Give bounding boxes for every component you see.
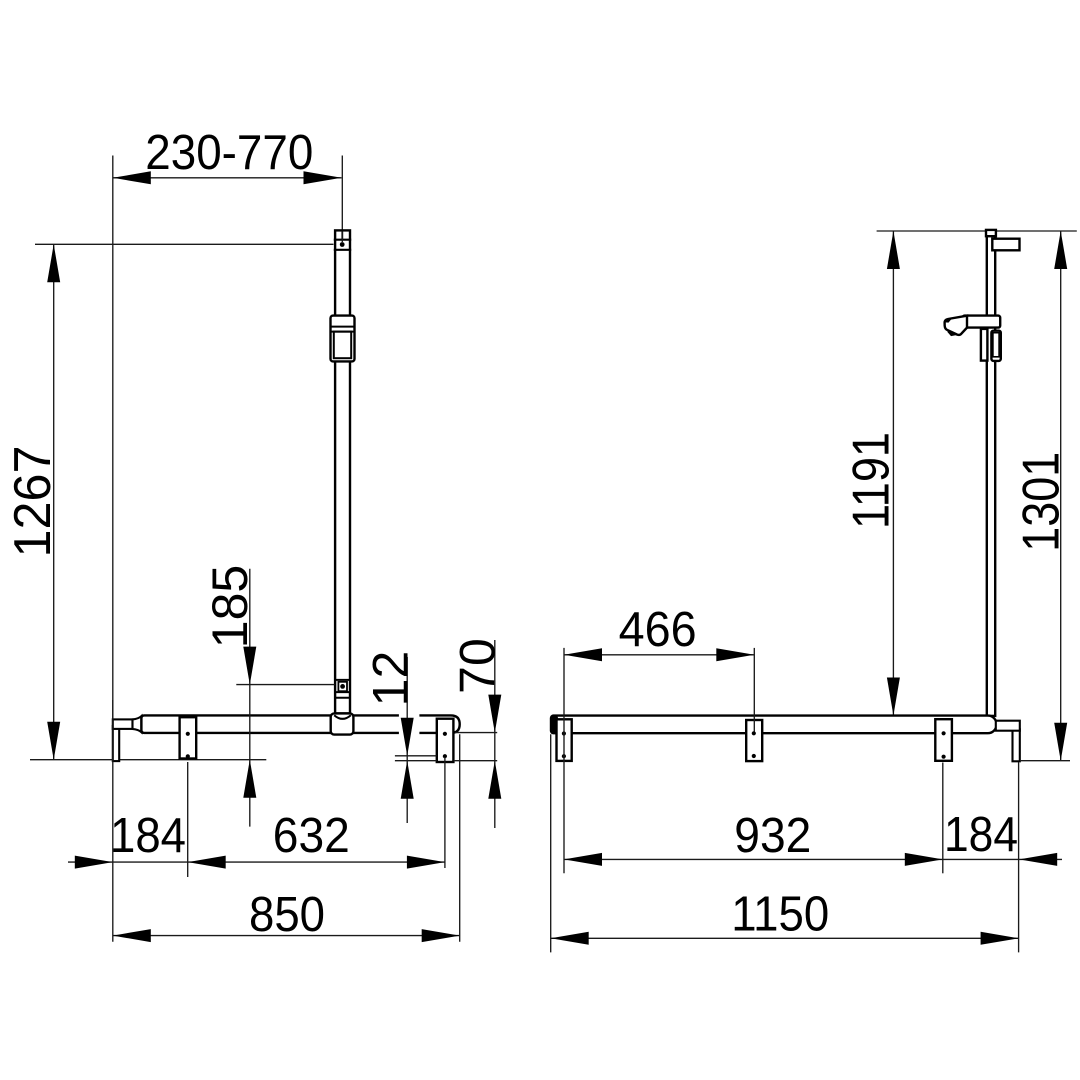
dimension 185 lower arrow (up) — [243, 760, 256, 798]
tee connector — [331, 713, 354, 734]
head accent bottom — [947, 330, 957, 336]
dimension 230-770 right arrow — [304, 171, 342, 184]
svg-text:850: 850 — [249, 888, 325, 942]
clamp inner — [993, 333, 999, 357]
dimension 932 right arrow — [905, 853, 943, 866]
extension stub into cap — [341, 232, 343, 243]
slider plate — [981, 329, 988, 361]
dimension 632 right arrow — [407, 856, 445, 869]
rail lower pivot box lines — [334, 679, 351, 681]
dimension 850 line — [113, 935, 460, 937]
dimension 1267 top arrow — [47, 244, 60, 282]
flange left screw dots — [186, 732, 190, 736]
svg-text:184: 184 — [944, 808, 1018, 862]
dimension 466 line — [564, 654, 754, 656]
svg-text:1267: 1267 — [4, 446, 62, 558]
dimension 70 line — [494, 640, 496, 828]
flange plate right — [437, 719, 454, 762]
head accent top — [945, 318, 953, 323]
svg-text:70: 70 — [450, 638, 506, 694]
svg-text:185: 185 — [202, 565, 258, 648]
dimension 70 upper arrow (down) — [488, 695, 501, 733]
taper cone — [133, 716, 142, 732]
dimension 184/632 line — [68, 861, 445, 863]
flange 3 (right) — [935, 719, 952, 761]
dimension 1267 top reference line — [35, 243, 334, 245]
dimension 1267 bottom reference line — [30, 759, 266, 761]
svg-text:632: 632 — [273, 809, 350, 863]
svg-text:184: 184 — [110, 809, 186, 863]
rail cap pivot dot — [340, 242, 345, 247]
top reference line — [877, 230, 1077, 232]
extension line flange-left center x=187.7 — [187, 762, 189, 877]
dimension 466 extension right — [753, 648, 755, 732]
rail lower pivot inner box — [338, 682, 347, 691]
grab bar right view — [556, 716, 997, 734]
dimension 1191 bottom arrow — [887, 678, 900, 716]
svg-text:1191: 1191 — [843, 432, 901, 529]
rail cap divider line — [334, 239, 351, 241]
flange plate left — [180, 717, 197, 758]
flange 1 (left) — [557, 719, 572, 761]
break in bar outline for 12-dim arrow — [399, 714, 420, 736]
dimension 184 left outside arrow — [75, 856, 113, 869]
dimension 466 right arrow — [716, 648, 754, 661]
rail lower pivot dot — [340, 684, 345, 689]
dimension 1191 line — [892, 231, 894, 716]
svg-text:466: 466 — [619, 603, 697, 657]
dimension 185 upper arrow (down) — [243, 647, 256, 685]
dimension 932/184 line — [564, 858, 1019, 860]
svg-text:1150: 1150 — [731, 887, 829, 941]
dimension 632 left arrow — [188, 856, 226, 869]
extension line rail-center top x=342.3 — [341, 156, 343, 230]
extension line flange3 center x=942.8 — [942, 763, 944, 874]
extension line bar left end x=550.7 — [550, 734, 552, 952]
dimension 12 reference line upper — [395, 755, 437, 757]
hand shower handle — [963, 316, 1001, 328]
dimension 12 line — [406, 657, 408, 823]
svg-text:12: 12 — [363, 651, 419, 707]
dimension 466 extension left (also 932 left) — [563, 648, 565, 873]
dimension 1267 line — [53, 244, 55, 759]
dimension 1301 top arrow — [1054, 231, 1067, 269]
flange 2 (middle) — [746, 720, 762, 761]
svg-text:1301: 1301 — [1013, 452, 1071, 552]
flange right screw dots — [443, 732, 447, 736]
wall bracket top — [992, 239, 1019, 251]
slider line 1 — [331, 326, 355, 328]
dimension 184R right outside arrow — [1019, 853, 1057, 866]
dimension 1301 bottom arrow — [1054, 723, 1067, 761]
vertical shower rail right — [987, 236, 995, 716]
dimension 230-770 left arrow — [113, 171, 151, 184]
rail cap center vline — [341, 232, 343, 240]
rail top cap — [986, 230, 996, 236]
dimension 1267 bottom arrow — [47, 722, 60, 760]
slider clamp — [991, 331, 1000, 361]
grab bar (horizontal) — [141, 715, 459, 733]
wall plate right (edge-on) — [1013, 729, 1020, 761]
slider inner box — [334, 332, 351, 359]
wall stub tube — [113, 719, 133, 729]
dimension 1150 line — [551, 937, 1019, 939]
hand shower head — [945, 316, 967, 335]
dimension 850 left arrow — [113, 929, 151, 942]
dimension 12 upper arrow (down) — [401, 718, 414, 756]
dimension 70 lower arrow (up) — [488, 761, 501, 799]
wall stub tube right — [996, 721, 1020, 731]
dimension 70 reference line — [455, 732, 497, 734]
tee saddle arc — [334, 715, 351, 719]
dimension 466 left arrow — [564, 648, 602, 661]
dimension 1150 left arrow — [551, 932, 589, 945]
dimension 1301 line — [1060, 231, 1062, 761]
dimension 185 line — [249, 569, 251, 827]
reference line 1301 bottom — [1020, 760, 1070, 762]
extension line wall x=1018.6 — [1018, 762, 1020, 952]
rail cap bottom line — [334, 249, 351, 251]
slider line 2 — [331, 331, 355, 333]
dimension 12 lower arrow (up) — [401, 761, 414, 799]
dimension 12 reference line lower — [395, 760, 437, 762]
dimension 850 right arrow — [422, 929, 460, 942]
dimension 185 reference line — [236, 684, 334, 686]
vertical shower rail — [335, 230, 350, 713]
extension line wall-left x=112.8 (over parts) — [112, 700, 114, 942]
slider block — [331, 316, 355, 362]
dimension 932 left arrow — [564, 853, 602, 866]
wall plate left (edge-on) — [113, 726, 119, 761]
extension line flange-right center x=444.9 — [444, 757, 446, 868]
dimension 1191 top arrow — [887, 231, 900, 269]
svg-text:230-770: 230-770 — [145, 126, 313, 180]
extension line wall-left x=112.8 — [112, 156, 114, 720]
dimension 1150 right arrow — [981, 932, 1019, 945]
dimension 230-770 line — [113, 177, 342, 179]
tail right of wall ext — [1019, 858, 1062, 860]
svg-text:932: 932 — [734, 809, 811, 863]
bar left end cap (dark slab) — [550, 714, 558, 734]
extension line bar right end x=459.7 — [459, 734, 461, 942]
